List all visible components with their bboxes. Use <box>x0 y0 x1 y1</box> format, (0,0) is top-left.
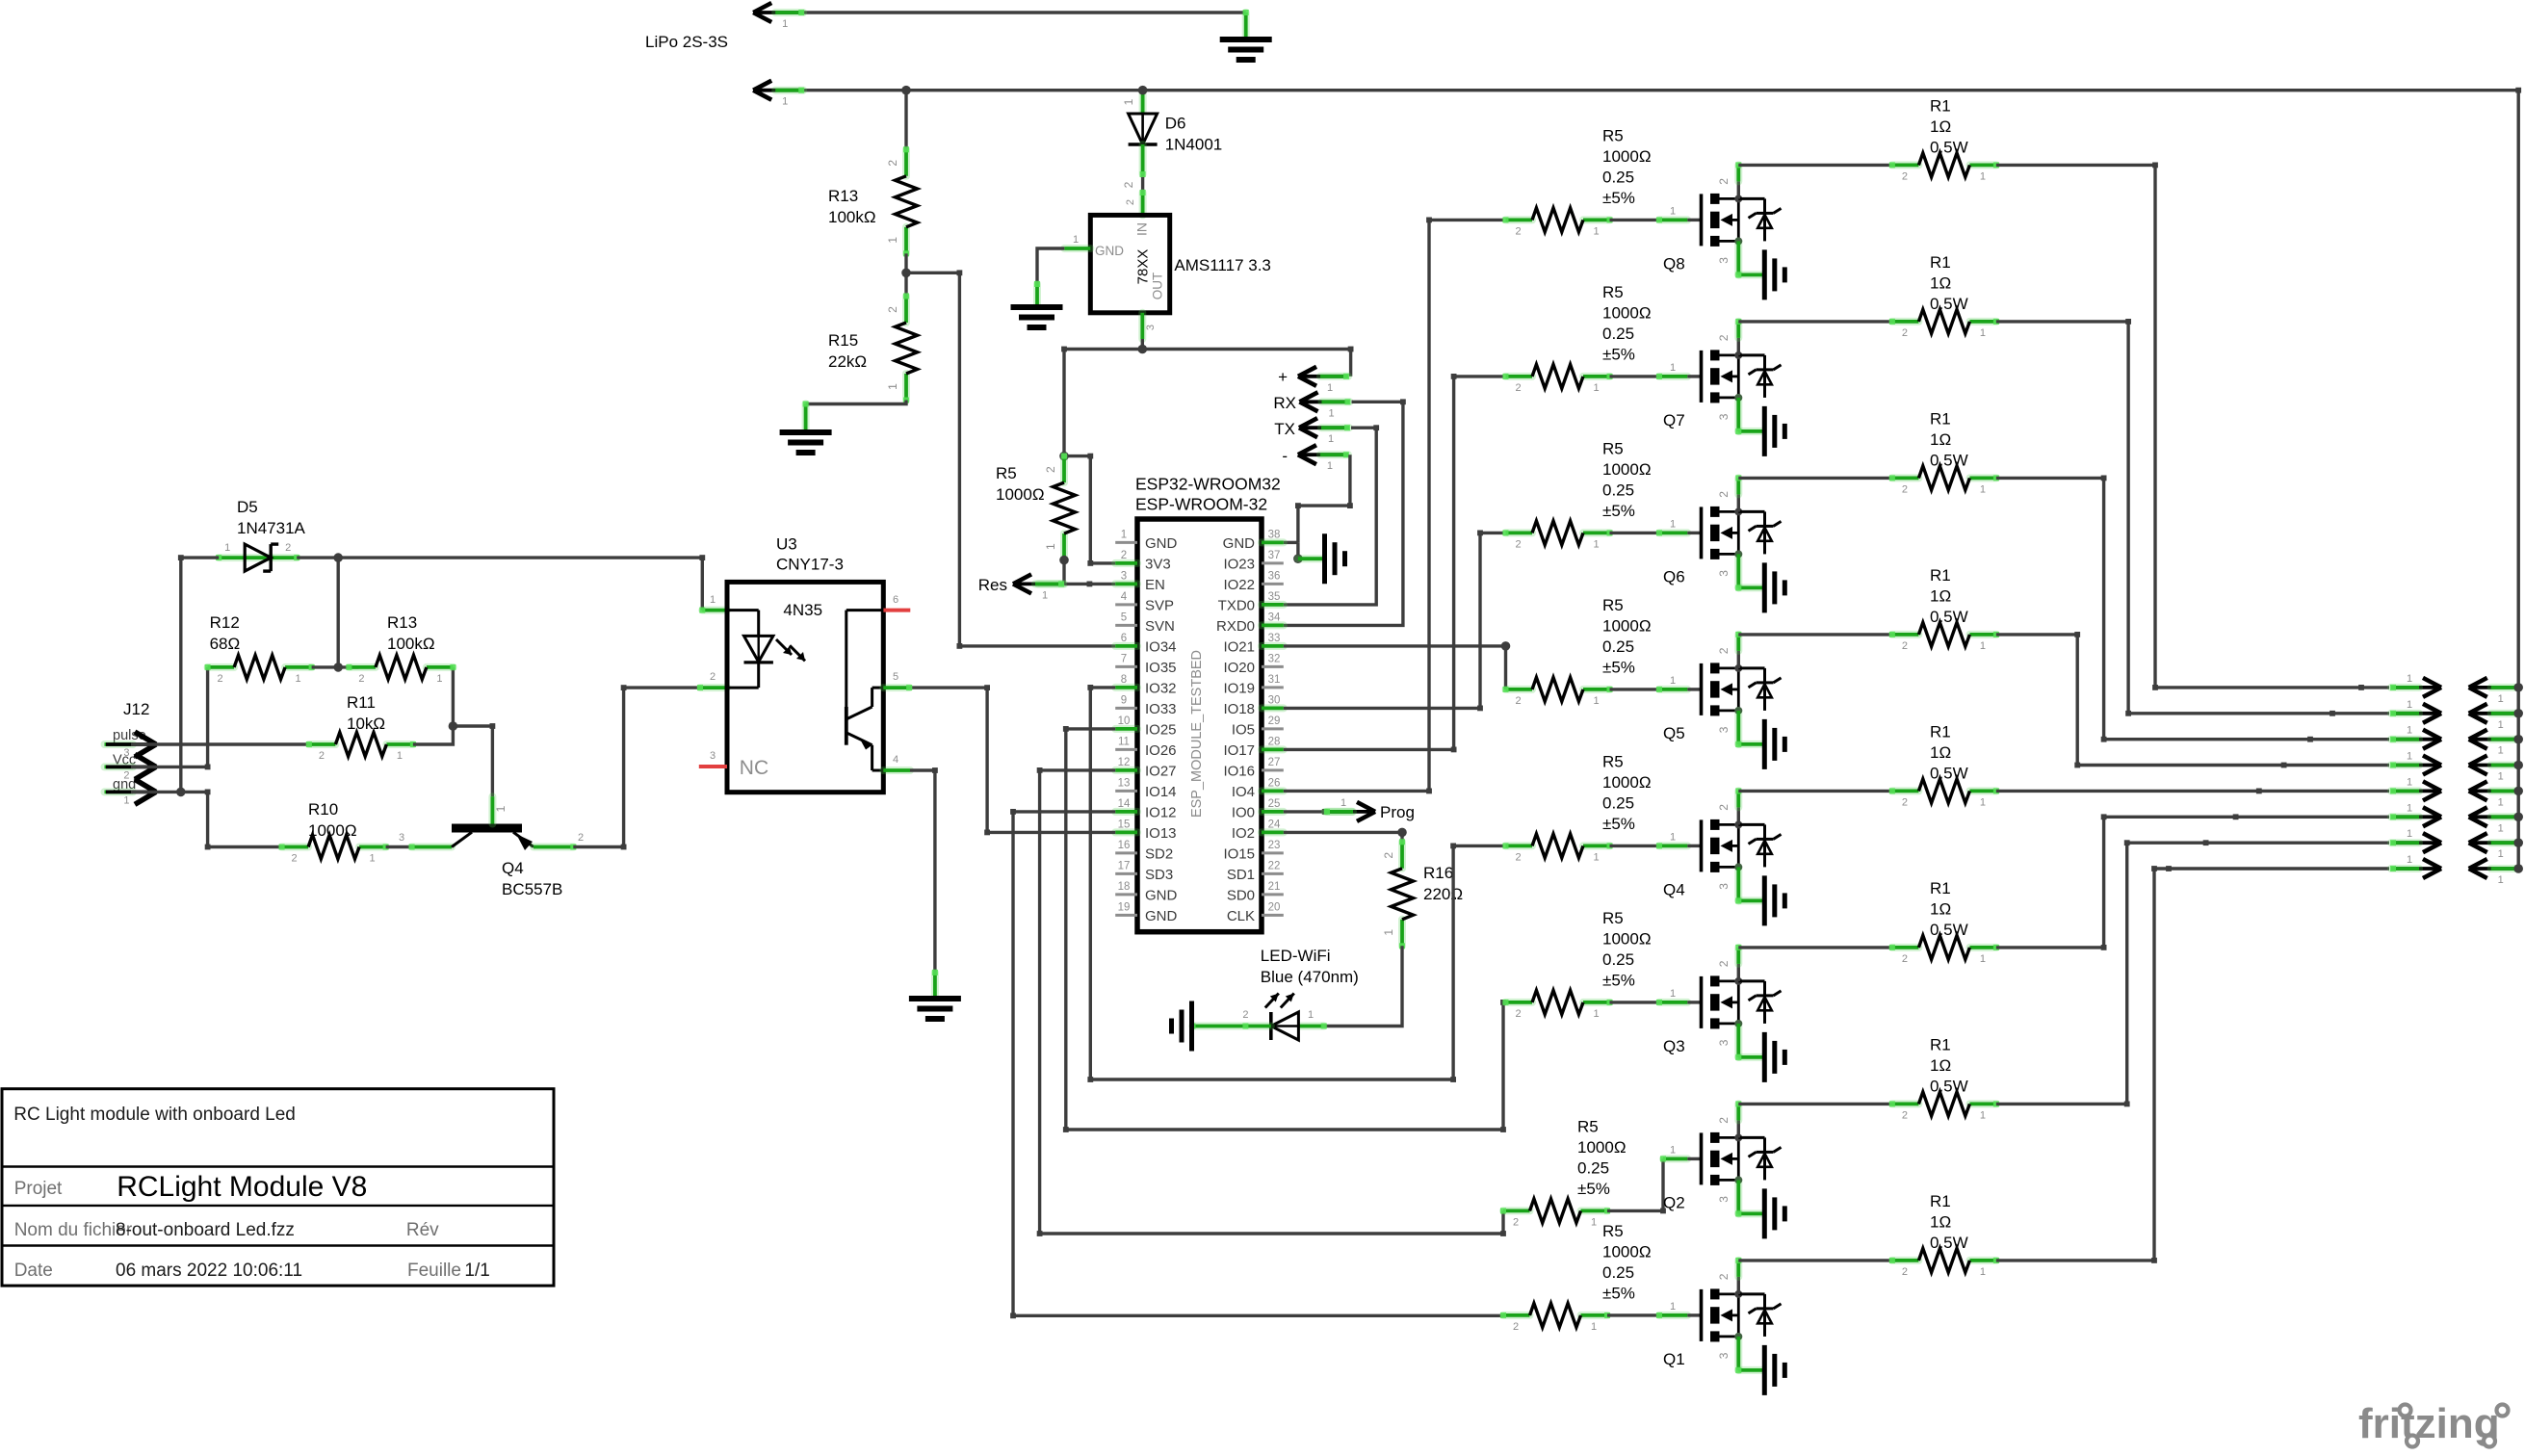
svg-text:2: 2 <box>1902 1109 1908 1121</box>
resistor R1 1Ω 0.5W drain Q4 <box>1892 787 1919 794</box>
svg-text:1: 1 <box>1593 1008 1599 1020</box>
svg-text:±5%: ±5% <box>1602 658 1635 676</box>
connector arrow supply row 6 <box>2472 815 2519 819</box>
svg-text:2: 2 <box>1902 1266 1908 1278</box>
svg-text:IN: IN <box>1134 222 1150 236</box>
wire R11 to base node <box>413 667 454 744</box>
svg-text:Q1: Q1 <box>1663 1350 1685 1368</box>
svg-text:R5: R5 <box>1602 909 1624 927</box>
svg-text:1N4001: 1N4001 <box>1165 136 1223 154</box>
svg-text:1: 1 <box>1593 225 1599 237</box>
svg-text:1: 1 <box>1308 1009 1314 1021</box>
svg-text:1Ω: 1Ω <box>1930 743 1951 762</box>
svg-text:Q2: Q2 <box>1663 1193 1685 1211</box>
connector arrow output Q8 <box>2391 686 2438 689</box>
resistor R5 1000Ω gate Q6 <box>1506 529 1533 536</box>
svg-text:D5: D5 <box>237 498 258 516</box>
transistor Q2 N-MOSFET <box>1700 1132 1704 1184</box>
connector arrow RX <box>1303 400 1350 403</box>
svg-text:±5%: ±5% <box>1602 502 1635 520</box>
wire IO21 to Q5 gate <box>1284 646 1506 689</box>
connector arrow supply row 7 <box>2472 841 2519 845</box>
svg-text:TXD0: TXD0 <box>1218 597 1255 613</box>
svg-text:U3: U3 <box>776 535 797 554</box>
svg-text:2: 2 <box>1513 1321 1519 1333</box>
wire LiPo - main rail <box>803 89 2518 91</box>
svg-text:IO2: IO2 <box>1232 825 1255 842</box>
svg-text:26: 26 <box>1268 777 1281 789</box>
svg-text:IO20: IO20 <box>1223 660 1255 676</box>
svg-text:R5: R5 <box>1602 126 1624 144</box>
svg-text:2: 2 <box>218 673 223 685</box>
svg-text:21: 21 <box>1268 881 1281 893</box>
resistor R5 1000Ω gate Q4 <box>1506 842 1533 849</box>
svg-text:0.25: 0.25 <box>1602 168 1634 186</box>
svg-text:RC Light module with onboard L: RC Light module with onboard Led <box>13 1105 296 1125</box>
svg-text:Q4: Q4 <box>502 859 524 877</box>
svg-text:220Ω: 220Ω <box>1423 885 1463 903</box>
svg-text:32: 32 <box>1268 653 1281 664</box>
svg-text:2: 2 <box>285 542 291 554</box>
svg-text:RX: RX <box>1273 394 1296 412</box>
svg-text:0.5W: 0.5W <box>1930 1234 1968 1252</box>
transistor Q3 N-MOSFET <box>1700 976 1704 1028</box>
svg-text:2: 2 <box>1717 1273 1731 1280</box>
svg-text:1: 1 <box>1073 234 1079 246</box>
svg-text:3: 3 <box>1717 413 1731 420</box>
svg-text:Date: Date <box>14 1261 53 1281</box>
transistor Q4 BC557B <box>452 824 522 833</box>
svg-text:±5%: ±5% <box>1602 345 1635 363</box>
svg-text:2: 2 <box>1125 199 1136 205</box>
wire R15 to ground <box>806 401 906 404</box>
svg-text:IO19: IO19 <box>1223 680 1255 696</box>
svg-text:2: 2 <box>1717 491 1731 498</box>
svg-text:1: 1 <box>1121 529 1127 540</box>
svg-text:2: 2 <box>292 853 298 865</box>
svg-text:22kΩ: 22kΩ <box>828 352 867 371</box>
svg-text:R10: R10 <box>308 800 338 819</box>
wire R13 to R15 junction <box>904 253 907 296</box>
svg-text:1: 1 <box>886 237 899 244</box>
connector arrow output Q2 <box>2391 841 2438 845</box>
svg-text:1: 1 <box>1980 1109 1986 1121</box>
svg-text:3: 3 <box>1145 325 1157 330</box>
svg-text:R1: R1 <box>1930 1192 1951 1210</box>
ground at ESP GND38 <box>1322 533 1327 584</box>
wire Q1 drain to R1 <box>1738 1259 1892 1261</box>
svg-text:0.5W: 0.5W <box>1930 295 1968 313</box>
svg-text:Q5: Q5 <box>1663 724 1685 742</box>
connector arrow supply row 8 <box>2472 867 2519 871</box>
svg-text:1: 1 <box>1980 170 1986 182</box>
wire R5 to Q3 gate <box>1610 1001 1660 1003</box>
wire R5 to Q7 gate <box>1610 375 1660 377</box>
svg-text:18: 18 <box>1118 881 1131 893</box>
svg-text:2: 2 <box>1515 1008 1521 1020</box>
svg-text:R1: R1 <box>1930 566 1951 585</box>
connector arrow output Q6 <box>2391 738 2438 741</box>
svg-text:2: 2 <box>1902 327 1908 339</box>
wire Q8 drain to R1 <box>1738 164 1892 167</box>
resistor R11 10kΩ <box>309 741 336 748</box>
wire base branch <box>449 721 458 731</box>
svg-text:30: 30 <box>1268 694 1281 706</box>
svg-text:1: 1 <box>1122 98 1135 105</box>
svg-text:1: 1 <box>1593 382 1599 394</box>
svg-text:IO12: IO12 <box>1145 804 1177 820</box>
wire rail to D6 <box>1139 91 1147 114</box>
svg-text:0.5W: 0.5W <box>1930 1077 1968 1095</box>
wire D6 to AMS1117 IN <box>1139 144 1147 174</box>
svg-text:1: 1 <box>2407 776 2412 788</box>
wire minus to GND38 <box>1298 455 1350 542</box>
svg-text:4: 4 <box>1121 591 1128 603</box>
svg-text:2: 2 <box>1902 483 1908 495</box>
wire 3.3V to plus arrow <box>1349 350 1352 377</box>
svg-text:2: 2 <box>1044 466 1057 473</box>
svg-text:R13: R13 <box>387 613 417 632</box>
svg-text:23: 23 <box>1268 840 1281 851</box>
title block <box>2 1089 554 1286</box>
wire Q2 output to connector <box>1996 843 2389 1104</box>
wire IO32 to Q4 gate <box>1090 688 1503 1079</box>
svg-text:35: 35 <box>1268 591 1281 603</box>
connector arrow LiPo - <box>756 89 803 92</box>
svg-text:R12: R12 <box>210 613 240 632</box>
svg-text:36: 36 <box>1268 570 1281 582</box>
wire Q6 output to connector <box>1996 478 2389 739</box>
svg-text:1: 1 <box>1670 988 1676 1000</box>
transistor Q5 N-MOSFET <box>1700 663 1704 715</box>
svg-text:1: 1 <box>1328 433 1334 445</box>
wire AMS GND to ground <box>1064 245 1090 252</box>
svg-text:SD0: SD0 <box>1227 887 1255 903</box>
svg-text:0.5W: 0.5W <box>1930 451 1968 469</box>
svg-text:3: 3 <box>1717 1039 1731 1046</box>
svg-text:fritzing: fritzing <box>2358 1400 2500 1447</box>
connector arrow TX <box>1302 426 1349 429</box>
svg-text:IO21: IO21 <box>1223 638 1255 655</box>
wire Q5 output to connector <box>1996 635 2389 766</box>
svg-text:0.25: 0.25 <box>1602 325 1634 343</box>
svg-text:0.25: 0.25 <box>1602 481 1634 499</box>
resistor R5 1000Ω gate Q1 <box>1503 1312 1530 1319</box>
svg-text:R13: R13 <box>828 187 858 205</box>
svg-text:SVP: SVP <box>1145 597 1174 613</box>
svg-text:1: 1 <box>2498 745 2504 757</box>
wire TX to TXD0 <box>1284 428 1376 605</box>
ground at LED-WiFi <box>1189 1001 1194 1052</box>
svg-text:R1: R1 <box>1930 96 1951 115</box>
svg-text:2: 2 <box>1902 796 1908 808</box>
svg-text:RXD0: RXD0 <box>1216 618 1255 635</box>
svg-text:100kΩ: 100kΩ <box>828 208 876 226</box>
svg-text:2: 2 <box>1902 640 1908 652</box>
transistor Q7 N-MOSFET <box>1700 351 1704 403</box>
svg-text:CNY17-3: CNY17-3 <box>776 556 844 574</box>
wire R16 to LED anode <box>1324 946 1402 1026</box>
wire divider mid to IO34 <box>906 273 1115 646</box>
wire 3.3V down to R5 pullup <box>1062 350 1065 456</box>
svg-text:16: 16 <box>1118 840 1131 851</box>
svg-text:1000Ω: 1000Ω <box>1577 1138 1627 1157</box>
svg-text:1000Ω: 1000Ω <box>1602 929 1652 948</box>
svg-text:6: 6 <box>1121 633 1127 644</box>
wire Q8 output to connector <box>1996 165 2389 688</box>
svg-text:1: 1 <box>1591 1321 1597 1333</box>
svg-text:Projet: Projet <box>14 1179 63 1199</box>
optocoupler U3 CNY17-3 4N35 <box>727 582 883 792</box>
wire IO12 to Q1 gate <box>1013 812 1503 1315</box>
svg-text:29: 29 <box>1268 715 1281 727</box>
svg-text:1Ω: 1Ω <box>1930 586 1951 605</box>
resistor R16 220Ω <box>1398 842 1406 869</box>
svg-text:Rév: Rév <box>406 1220 439 1240</box>
wire IO18 to Q6 gate <box>1284 533 1503 708</box>
svg-text:2: 2 <box>1902 953 1908 965</box>
wire IO27 to Q2 gate resistor <box>1040 770 1503 1234</box>
ground below R15 <box>780 429 832 435</box>
connector arrow supply row 5 <box>2472 790 2519 793</box>
svg-text:1: 1 <box>1670 518 1676 530</box>
svg-text:15: 15 <box>1118 819 1131 830</box>
svg-text:1: 1 <box>1593 695 1599 707</box>
svg-text:ESP-WROOM-32: ESP-WROOM-32 <box>1135 495 1267 514</box>
svg-text:D6: D6 <box>1165 115 1186 133</box>
svg-text:R16: R16 <box>1423 864 1453 882</box>
svg-text:2: 2 <box>1121 550 1127 561</box>
svg-text:EN: EN <box>1145 577 1165 593</box>
svg-text:2: 2 <box>886 306 899 313</box>
svg-text:0.25: 0.25 <box>1602 1263 1634 1282</box>
wire Q4 drain to R1 <box>1738 790 1892 793</box>
svg-text:Q6: Q6 <box>1663 567 1685 585</box>
svg-text:1: 1 <box>1980 640 1986 652</box>
resistor R15 22kΩ divider <box>902 297 910 324</box>
transistor Q8 N-MOSFET <box>1700 194 1704 246</box>
wire IO0 to Prog <box>1284 810 1327 813</box>
svg-text:±5%: ±5% <box>1602 815 1635 833</box>
svg-text:25: 25 <box>1268 798 1281 810</box>
wire Q7 output to connector <box>1996 322 2389 714</box>
svg-text:0.25: 0.25 <box>1602 793 1634 812</box>
svg-text:8-out-onboard Led.fzz: 8-out-onboard Led.fzz <box>116 1220 295 1240</box>
wire R5 jog to Q2 gate <box>1607 1158 1663 1210</box>
wire IO2 to R16 <box>1284 831 1402 834</box>
svg-text:1: 1 <box>2498 848 2504 860</box>
svg-text:1000Ω: 1000Ω <box>1602 1242 1652 1261</box>
svg-text:2: 2 <box>1242 1009 1248 1021</box>
svg-text:28: 28 <box>1268 736 1281 747</box>
wire opto pin4 to ground <box>883 767 910 774</box>
connector arrow Res <box>1016 583 1063 586</box>
svg-text:1N4731A: 1N4731A <box>237 519 306 537</box>
svg-text:19: 19 <box>1118 901 1131 913</box>
wire right bus vertical <box>2516 91 2519 869</box>
svg-text:IO32: IO32 <box>1145 680 1177 696</box>
svg-text:13: 13 <box>1118 777 1131 789</box>
svg-text:3: 3 <box>1717 1196 1731 1203</box>
svg-text:±5%: ±5% <box>1577 1180 1610 1198</box>
svg-text:1: 1 <box>1327 382 1333 394</box>
connector arrow output Q1 <box>2391 867 2438 871</box>
svg-text:68Ω: 68Ω <box>210 635 241 653</box>
svg-text:17: 17 <box>1118 860 1131 871</box>
svg-text:1Ω: 1Ω <box>1930 1212 1951 1231</box>
svg-text:R1: R1 <box>1930 722 1951 741</box>
wire rail to R13 <box>904 91 907 150</box>
connector arrow supply row 4 <box>2472 764 2519 767</box>
svg-text:27: 27 <box>1268 757 1281 768</box>
svg-text:CLK: CLK <box>1227 908 1255 924</box>
wire RX to RXD0 <box>1284 402 1403 625</box>
svg-text:SD1: SD1 <box>1227 867 1255 883</box>
svg-text:Q3: Q3 <box>1663 1037 1685 1055</box>
svg-text:IO4: IO4 <box>1232 784 1255 800</box>
svg-text:2: 2 <box>1717 1117 1731 1124</box>
svg-text:BC557B: BC557B <box>502 880 562 898</box>
svg-text:0.25: 0.25 <box>1602 637 1634 656</box>
svg-text:1Ω: 1Ω <box>1930 117 1951 136</box>
ground at AMS1117 GND <box>1011 304 1063 310</box>
svg-text:1: 1 <box>1670 675 1676 687</box>
svg-text:0.5W: 0.5W <box>1930 138 1968 156</box>
svg-text:R1: R1 <box>1930 879 1951 897</box>
wire Q3 output to connector <box>1996 817 2389 948</box>
svg-text:1: 1 <box>2498 719 2504 731</box>
resistor R5 1000Ω EN pullup <box>1060 456 1068 483</box>
svg-text:1: 1 <box>2407 699 2412 711</box>
svg-text:12: 12 <box>1118 757 1131 768</box>
svg-text:R15: R15 <box>828 331 858 350</box>
svg-text:2: 2 <box>1902 170 1908 182</box>
svg-text:IO5: IO5 <box>1232 721 1255 738</box>
ground at opto emitter <box>909 996 961 1001</box>
svg-text:J12: J12 <box>123 700 149 718</box>
wire D5 anode to gnd rail <box>181 558 219 792</box>
svg-text:R11: R11 <box>347 693 376 712</box>
svg-text:2: 2 <box>1382 852 1395 859</box>
svg-text:34: 34 <box>1268 611 1281 623</box>
svg-text:IO13: IO13 <box>1145 825 1177 842</box>
svg-text:1: 1 <box>1980 483 1986 495</box>
svg-text:1: 1 <box>2498 771 2504 783</box>
svg-text:±5%: ±5% <box>1602 189 1635 207</box>
svg-text:24: 24 <box>1268 819 1281 830</box>
svg-text:R1: R1 <box>1930 409 1951 428</box>
wire GND38 pin to ground <box>1284 541 1298 544</box>
svg-text:3: 3 <box>1121 570 1127 582</box>
svg-text:1: 1 <box>1670 1301 1676 1313</box>
svg-text:10: 10 <box>1118 715 1131 727</box>
svg-text:3: 3 <box>1717 883 1731 890</box>
svg-text:NC: NC <box>740 757 768 779</box>
svg-text:14: 14 <box>1118 798 1131 810</box>
resistor R5 1000Ω gate Q5 <box>1506 686 1533 693</box>
svg-text:1: 1 <box>2407 802 2412 814</box>
resistor R5 1000Ω gate Q7 <box>1506 373 1533 380</box>
svg-text:3: 3 <box>1717 1352 1731 1359</box>
svg-text:11: 11 <box>1118 736 1130 747</box>
svg-text:1: 1 <box>2407 725 2412 737</box>
svg-text:ESP32-WROOM32: ESP32-WROOM32 <box>1135 475 1281 494</box>
svg-text:RCLight Module V8: RCLight Module V8 <box>117 1171 367 1203</box>
wire R5 to Q8 gate <box>1610 219 1660 221</box>
svg-text:R5: R5 <box>1602 283 1624 301</box>
svg-text:ESP_MODULE_TESTBED: ESP_MODULE_TESTBED <box>1189 650 1205 818</box>
svg-text:2: 2 <box>1515 851 1521 863</box>
svg-text:1: 1 <box>1382 929 1395 936</box>
resistor R5 1000Ω gate Q3 <box>1506 999 1533 1006</box>
svg-text:1: 1 <box>886 383 899 390</box>
svg-text:1: 1 <box>1670 205 1676 217</box>
svg-text:3: 3 <box>1717 570 1731 577</box>
svg-text:1: 1 <box>2498 874 2504 886</box>
svg-text:SVN: SVN <box>1145 618 1175 635</box>
svg-text:1: 1 <box>436 673 442 685</box>
svg-text:2: 2 <box>578 832 584 844</box>
wire gnd to R10 <box>176 788 186 797</box>
svg-text:1: 1 <box>1328 407 1334 419</box>
svg-text:GND: GND <box>1145 908 1178 924</box>
svg-text:1: 1 <box>1670 362 1676 374</box>
svg-text:1000Ω: 1000Ω <box>996 485 1045 504</box>
wire R5 to Q1 gate <box>1607 1313 1659 1316</box>
resistor R13 100kΩ input <box>349 663 376 671</box>
wire Q4 output to connector <box>1996 790 2389 793</box>
svg-text:1: 1 <box>2498 796 2504 808</box>
svg-text:33: 33 <box>1268 633 1281 644</box>
wire LED cathode to ground <box>1193 1023 1271 1030</box>
svg-text:1: 1 <box>2498 693 2504 705</box>
svg-text:1: 1 <box>1980 1266 1986 1278</box>
wire R10 to Q4 emitter <box>386 845 412 848</box>
svg-text:1: 1 <box>296 673 301 685</box>
svg-text:1000Ω: 1000Ω <box>1602 460 1652 479</box>
resistor R1 1Ω 0.5W drain Q8 <box>1892 161 1919 169</box>
svg-text:1: 1 <box>1980 953 1986 965</box>
svg-text:±5%: ±5% <box>1602 971 1635 989</box>
resistor R10 1000Ω <box>282 844 309 851</box>
svg-text:1: 1 <box>370 853 376 865</box>
svg-text:7: 7 <box>1121 653 1127 664</box>
svg-text:4: 4 <box>893 754 898 766</box>
svg-text:2: 2 <box>358 673 364 685</box>
wire Q5 drain to R1 <box>1738 633 1892 636</box>
svg-text:2: 2 <box>1717 647 1731 654</box>
connector arrow Prog <box>1325 810 1372 814</box>
svg-text:-: - <box>1282 447 1288 465</box>
resistor R1 1Ω 0.5W drain Q7 <box>1892 318 1919 325</box>
resistor R1 1Ω 0.5W drain Q5 <box>1892 631 1919 638</box>
svg-text:IO18: IO18 <box>1223 701 1255 717</box>
svg-text:5: 5 <box>1121 611 1127 623</box>
svg-text:R1: R1 <box>1930 1035 1951 1053</box>
wire IO13 to opto pin5 <box>909 688 1115 832</box>
resistor R5 1000Ω gate Q2 <box>1503 1207 1530 1214</box>
svg-text:2: 2 <box>1515 225 1521 237</box>
svg-text:2: 2 <box>1515 538 1521 550</box>
svg-text:IO33: IO33 <box>1145 701 1177 717</box>
wire 3.3V to ESP 3V3 pin <box>1064 456 1115 563</box>
svg-text:Q4: Q4 <box>1663 880 1685 898</box>
svg-text:Feuille: Feuille <box>407 1261 461 1281</box>
resistor R12 68Ω <box>208 663 235 671</box>
svg-text:22: 22 <box>1268 860 1281 871</box>
svg-text:1: 1 <box>1670 831 1676 843</box>
svg-text:1: 1 <box>494 805 508 812</box>
